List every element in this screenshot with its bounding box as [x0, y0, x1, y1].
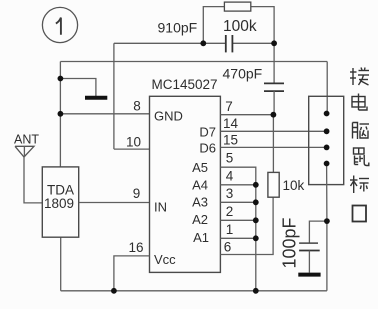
wire 910pF row right: [232, 42, 274, 44]
svg-text:6: 6: [224, 240, 232, 255]
resistor R1 100k: [203, 2, 274, 43]
svg-text:14: 14: [223, 116, 239, 131]
svg-text:A4: A4: [192, 178, 208, 193]
svg-text:7: 7: [225, 99, 233, 114]
svg-text:10k: 10k: [283, 178, 305, 193]
wire pin16 Vcc: [114, 256, 150, 291]
svg-text:A3: A3: [192, 195, 208, 210]
circle figure number 1: [42, 7, 77, 42]
wire ground branch: [60, 79, 96, 97]
wire pin6 row to 10k bottom: [220, 197, 273, 254]
antenna ANT: [14, 133, 42, 203]
wire D7 to connector: [220, 130, 326, 132]
label 鼠: [354, 148, 369, 166]
label 标: [350, 176, 369, 194]
svg-text:2: 2: [226, 204, 234, 219]
capacitor C1 910pF: [158, 20, 233, 53]
wire A1 row: [220, 237, 255, 239]
wire 910pF row y=43.3 left: [114, 42, 226, 44]
svg-text:15: 15: [223, 133, 238, 148]
wire connector pin4 down: [326, 164, 328, 291]
svg-text:Vcc: Vcc: [154, 252, 176, 267]
svg-text:5: 5: [226, 151, 234, 166]
wire A4 row: [220, 184, 255, 186]
svg-text:3: 3: [226, 186, 234, 201]
connector J1 mouse port: [309, 96, 344, 184]
svg-text:A5: A5: [192, 160, 208, 175]
svg-text:1809: 1809: [44, 196, 74, 211]
wire A5 row to ground column: [220, 167, 255, 291]
resistor R2 10k: [268, 115, 305, 198]
svg-text:9: 9: [133, 186, 141, 201]
svg-text:D6: D6: [199, 141, 216, 156]
svg-text:A2: A2: [192, 212, 208, 227]
svg-text:100k: 100k: [223, 18, 257, 35]
wire D6 to connector: [220, 146, 326, 148]
svg-text:10: 10: [126, 135, 141, 150]
capacitor C3 100pF: [280, 217, 327, 272]
wire right rail down to connector pin1: [326, 62, 328, 114]
wire A2 row: [220, 219, 255, 221]
wire bottom rail: [61, 290, 327, 292]
svg-text:16: 16: [128, 240, 143, 255]
svg-text:D7: D7: [199, 125, 216, 140]
svg-text:910pF: 910pF: [158, 20, 198, 36]
wire pin10 stub: [114, 148, 150, 150]
wire top rail y=61.5: [60, 61, 327, 63]
capacitor C2 470pF: [223, 43, 285, 114]
label 电: [352, 94, 367, 111]
wire pin7 stub: [220, 114, 273, 116]
ground G2: [298, 273, 320, 277]
svg-text:470pF: 470pF: [223, 66, 263, 82]
wire pin8 GND row: [60, 113, 149, 115]
svg-text:MC145027: MC145027: [152, 77, 218, 92]
svg-text:GND: GND: [154, 109, 183, 124]
ground G1: [85, 96, 107, 100]
svg-text:100pF: 100pF: [280, 217, 300, 268]
wire x=113.9 down to pin10: [113, 43, 115, 149]
svg-text:ANT: ANT: [14, 133, 39, 147]
label 脑: [353, 123, 370, 140]
svg-text:IN: IN: [154, 200, 167, 215]
IC U2 TDA1809: [42, 167, 78, 237]
node junction dots: [58, 40, 330, 293]
svg-text:8: 8: [133, 99, 141, 114]
wire A3 row: [220, 201, 255, 203]
label 接: [350, 68, 369, 86]
wire TDA bottom lead: [60, 237, 62, 291]
label 口: [353, 206, 367, 222]
wire left rail x=60.4: [59, 62, 61, 168]
wire TDA out to pin9 IN: [79, 202, 150, 204]
svg-text:1: 1: [226, 222, 234, 237]
svg-text:4: 4: [226, 169, 234, 184]
svg-text:A1: A1: [193, 230, 209, 245]
IC U1 MC145027: [150, 77, 221, 272]
